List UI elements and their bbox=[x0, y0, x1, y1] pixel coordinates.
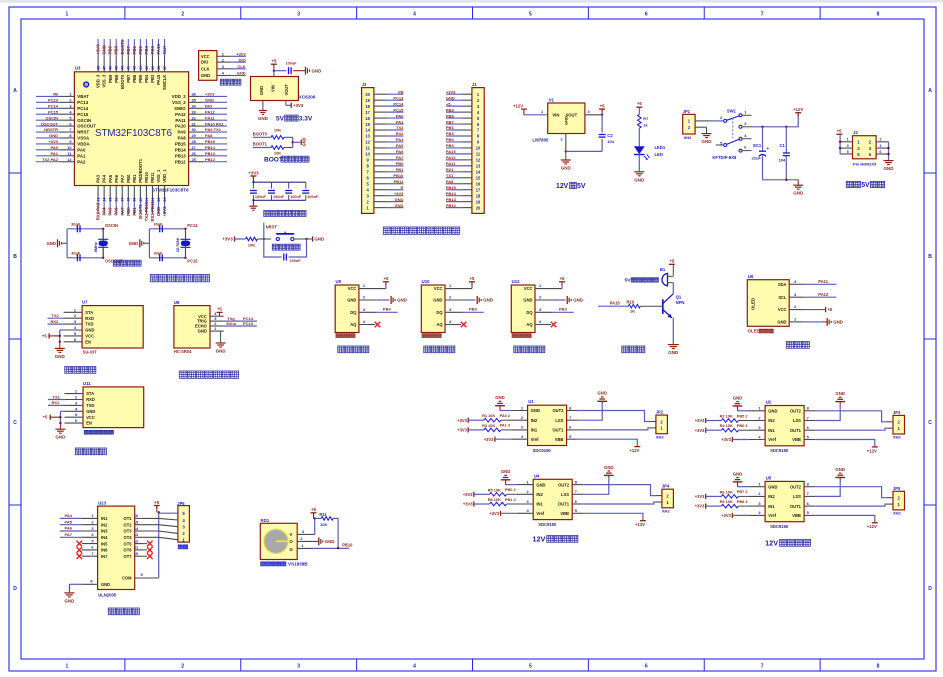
U13 GND pin 8 bbox=[64, 579, 110, 604]
svg-text:VDD_1: VDD_1 bbox=[162, 169, 167, 183]
svg-text:DIO: DIO bbox=[239, 57, 246, 62]
regulator GND pin to ground symbol bbox=[258, 101, 269, 122]
svg-text:STM32F103C8T6: STM32F103C8T6 bbox=[95, 128, 172, 139]
svg-text:PB14: PB14 bbox=[205, 145, 216, 150]
svg-text:TX1: TX1 bbox=[446, 173, 454, 178]
svg-text:20: 20 bbox=[139, 198, 143, 202]
svg-text:GND: GND bbox=[395, 197, 404, 202]
svg-text:OT1: OT1 bbox=[124, 516, 133, 521]
svg-text:PA5: PA5 bbox=[396, 143, 404, 148]
svg-text:PB3: PB3 bbox=[150, 46, 155, 55]
svg-text:+5: +5 bbox=[600, 104, 606, 109]
svg-text:PB0: PB0 bbox=[126, 174, 131, 183]
svg-text:IN4: IN4 bbox=[101, 535, 108, 540]
svg-text:PA0: PA0 bbox=[396, 113, 404, 118]
title 12V DC motor left bbox=[532, 535, 577, 544]
RD1 pin lines and numbers bbox=[297, 529, 317, 549]
svg-text:PB10: PB10 bbox=[144, 172, 149, 183]
svg-text:C: C bbox=[13, 420, 17, 426]
svg-text:GND: GND bbox=[55, 435, 66, 440]
svg-text:GND: GND bbox=[483, 298, 493, 303]
svg-text:10K: 10K bbox=[320, 522, 327, 527]
svg-text:U12: U12 bbox=[512, 279, 520, 284]
svg-text:VIN: VIN bbox=[270, 85, 275, 92]
RD1 O pin to GND sideways bbox=[317, 537, 335, 545]
svg-text:VB: VB bbox=[52, 92, 58, 97]
svg-text:12V: 12V bbox=[765, 539, 778, 548]
svg-text:GND: GND bbox=[573, 298, 583, 303]
module U8 ultrasonic HC-SR04 body bbox=[174, 300, 224, 354]
svg-text:GND: GND bbox=[347, 298, 356, 303]
svg-text:3: 3 bbox=[297, 664, 300, 670]
svg-text:DQ: DQ bbox=[526, 310, 533, 315]
svg-text:12V: 12V bbox=[556, 183, 569, 190]
svg-text:V: V bbox=[290, 532, 293, 537]
svg-text:15: 15 bbox=[365, 122, 370, 127]
svg-text:LSS: LSS bbox=[561, 492, 569, 497]
svg-text:GND: GND bbox=[156, 207, 161, 217]
svg-text:PB11: PB11 bbox=[394, 179, 405, 184]
svg-text:GND: GND bbox=[55, 354, 66, 359]
regulator XC6206 body bbox=[251, 77, 316, 101]
svg-text:1K: 1K bbox=[630, 308, 635, 313]
svg-text:48: 48 bbox=[97, 66, 101, 70]
svg-text:SCL: SCL bbox=[778, 295, 787, 300]
svg-text:+5: +5 bbox=[217, 306, 222, 311]
svg-text:BOOT0: BOOT0 bbox=[120, 74, 125, 89]
svg-text:OUT2: OUT2 bbox=[558, 482, 570, 487]
svg-text:GND: GND bbox=[536, 482, 545, 487]
RD1 G pin net PB10 bbox=[314, 543, 354, 550]
svg-text:10: 10 bbox=[67, 145, 71, 150]
svg-text:30pF: 30pF bbox=[71, 251, 81, 256]
svg-text:+5: +5 bbox=[828, 307, 833, 312]
svg-text:GND: GND bbox=[312, 68, 322, 73]
svg-text:EN: EN bbox=[85, 339, 91, 344]
svg-text:5: 5 bbox=[529, 12, 532, 18]
svg-text:12: 12 bbox=[365, 140, 370, 145]
svg-text:5: 5 bbox=[847, 150, 849, 154]
svg-text:JP3: JP3 bbox=[893, 410, 901, 415]
svg-text:Q1: Q1 bbox=[676, 294, 682, 299]
svg-text:PB10: PB10 bbox=[342, 543, 353, 548]
svg-text:OT5: OT5 bbox=[124, 541, 133, 546]
driver U5 SDC9150 with R6 R9 and JP5 bbox=[695, 467, 905, 529]
svg-text:PC13: PC13 bbox=[393, 95, 404, 100]
svg-text:TX1: TX1 bbox=[53, 394, 61, 399]
svg-text:Vref: Vref bbox=[531, 437, 539, 442]
svg-text:JP2: JP2 bbox=[656, 410, 664, 415]
svg-text:G: G bbox=[290, 547, 293, 552]
svg-text:VSSA: VSSA bbox=[77, 136, 90, 141]
ground for LED1 bbox=[634, 172, 645, 183]
svg-text:NRSTR: NRSTR bbox=[44, 127, 58, 132]
svg-text:RX1: RX1 bbox=[52, 400, 61, 405]
title IR tracking U10 bbox=[424, 346, 455, 353]
svg-text:PA11: PA11 bbox=[446, 161, 456, 166]
svg-text:VS1838B: VS1838B bbox=[288, 562, 308, 567]
svg-text:GND: GND bbox=[563, 116, 568, 125]
U6 net PA11 / PA12 / +5 / GND bbox=[804, 279, 843, 326]
svg-text:PC14: PC14 bbox=[77, 106, 88, 111]
power +5 for LED1 bbox=[636, 101, 642, 115]
svg-text:VIN: VIN bbox=[552, 112, 559, 117]
svg-text:30pF: 30pF bbox=[71, 222, 81, 227]
svg-text:J1: J1 bbox=[472, 82, 477, 87]
svg-text:PB1: PB1 bbox=[132, 174, 137, 183]
svg-text:U1: U1 bbox=[528, 399, 534, 404]
label IR receiver VS1838B bbox=[261, 562, 309, 567]
svg-text:SDC9150: SDC9150 bbox=[770, 524, 789, 529]
V1 GND pin2 to ground bbox=[561, 134, 603, 171]
svg-text:16: 16 bbox=[115, 198, 119, 202]
svg-text:+3V3: +3V3 bbox=[484, 437, 494, 442]
svg-text:R7: R7 bbox=[643, 116, 648, 121]
svg-text:OSCOUT: OSCOUT bbox=[77, 124, 96, 129]
svg-text:LM7805: LM7805 bbox=[532, 138, 549, 143]
svg-text:XH2: XH2 bbox=[893, 511, 902, 516]
RD1 V pin to +5 and resistor R11 10K bbox=[311, 507, 339, 548]
svg-text:16: 16 bbox=[365, 116, 370, 121]
svg-text:+3V3: +3V3 bbox=[457, 428, 467, 433]
svg-text:GND: GND bbox=[768, 484, 777, 489]
svg-text:13: 13 bbox=[476, 164, 481, 169]
svg-text:XH2: XH2 bbox=[662, 509, 671, 514]
svg-text:7: 7 bbox=[761, 664, 764, 670]
svg-text:VDD_3: VDD_3 bbox=[96, 74, 101, 88]
svg-text:PC13: PC13 bbox=[48, 98, 59, 103]
svg-text:XH2: XH2 bbox=[684, 135, 693, 140]
svg-text:SDC9150: SDC9150 bbox=[770, 448, 789, 453]
svg-text:PB13: PB13 bbox=[205, 151, 216, 156]
svg-text:5: 5 bbox=[529, 664, 532, 670]
svg-text:AQ: AQ bbox=[436, 322, 443, 327]
svg-text:STM32F103C8T6: STM32F103C8T6 bbox=[152, 188, 189, 193]
svg-text:TX2: TX2 bbox=[396, 125, 404, 130]
svg-text:+3V3: +3V3 bbox=[457, 418, 467, 423]
svg-text:7: 7 bbox=[575, 489, 577, 494]
svg-text:PB5: PB5 bbox=[138, 46, 143, 55]
svg-text:XC6206: XC6206 bbox=[299, 95, 316, 100]
svg-text:D: D bbox=[928, 586, 932, 592]
svg-text:RX2 PA3: RX2 PA3 bbox=[96, 202, 101, 220]
svg-text:GND: GND bbox=[201, 73, 210, 78]
label 5V active buzzer bbox=[625, 278, 659, 284]
svg-text:BOOT: BOOT bbox=[264, 157, 283, 164]
svg-text:11: 11 bbox=[366, 146, 371, 151]
svg-text:GND: GND bbox=[85, 328, 94, 333]
svg-text:PA0: PA0 bbox=[77, 147, 86, 152]
mcu U3 top pins 37-48 bbox=[96, 39, 168, 90]
svg-text:PB9: PB9 bbox=[469, 307, 478, 312]
svg-text:R3 10K: R3 10K bbox=[482, 423, 495, 428]
svg-text:PC15: PC15 bbox=[243, 321, 254, 326]
svg-text:VBAT: VBAT bbox=[77, 94, 89, 99]
svg-text:OUT1: OUT1 bbox=[790, 428, 802, 433]
svg-text:CLK: CLK bbox=[201, 66, 209, 71]
svg-text:10: 10 bbox=[476, 146, 481, 151]
svg-text:PB6: PB6 bbox=[132, 74, 137, 83]
svg-text:U2: U2 bbox=[766, 400, 772, 405]
svg-text:2: 2 bbox=[181, 664, 184, 670]
title 5V to 3.3V bbox=[276, 115, 313, 122]
svg-text:PA5: PA5 bbox=[108, 174, 113, 183]
svg-text:PB14: PB14 bbox=[446, 191, 457, 196]
svg-text:22uF: 22uF bbox=[752, 156, 762, 161]
module U11 bluetooth body and pins bbox=[65, 381, 144, 428]
svg-text:+5: +5 bbox=[559, 276, 565, 281]
title 12V to 5V bbox=[556, 182, 586, 190]
svg-text:RD1: RD1 bbox=[261, 518, 270, 523]
svg-text:IN1: IN1 bbox=[531, 428, 538, 433]
svg-text:OLED: OLED bbox=[751, 298, 756, 310]
svg-text:PA7: PA7 bbox=[396, 155, 404, 160]
svg-text:PB3: PB3 bbox=[446, 143, 455, 148]
title chip filter capacitors bbox=[264, 210, 306, 216]
svg-text:13: 13 bbox=[97, 198, 101, 202]
led LED1 bbox=[634, 145, 666, 171]
regulator VOUT to +3V3 bbox=[286, 101, 304, 108]
svg-text:17: 17 bbox=[365, 110, 370, 115]
svg-text:+3V3: +3V3 bbox=[489, 511, 499, 516]
module U6 OLED body bbox=[747, 274, 803, 333]
resistor R10 1K on base, net PA15 bbox=[598, 300, 663, 314]
connector J2 Pin HDR2X3 bbox=[840, 130, 888, 166]
svg-text:22: 22 bbox=[151, 198, 155, 202]
svg-text:LED: LED bbox=[655, 152, 663, 157]
connector JP6 motor bbox=[142, 501, 189, 543]
svg-text:VCC: VCC bbox=[434, 286, 443, 291]
svg-text:46: 46 bbox=[109, 66, 113, 70]
power +12V into V1 pin 1 bbox=[513, 104, 548, 115]
svg-text:10K: 10K bbox=[248, 243, 255, 248]
svg-text:PA7: PA7 bbox=[120, 174, 125, 183]
svg-text:6: 6 bbox=[879, 150, 881, 154]
module U10 IR tracking bbox=[421, 276, 493, 337]
svg-text:OUT2: OUT2 bbox=[790, 409, 802, 414]
switch SW1 KFTDIP-8X8 bbox=[716, 109, 752, 153]
svg-text:3: 3 bbox=[297, 12, 300, 18]
svg-text:OSCIN: OSCIN bbox=[45, 115, 58, 120]
svg-text:OT2: OT2 bbox=[124, 522, 133, 527]
svg-text:PA7: PA7 bbox=[65, 532, 73, 537]
svg-text:GND: GND bbox=[325, 539, 335, 544]
svg-text:+12V: +12V bbox=[629, 448, 639, 453]
svg-text:PB3: PB3 bbox=[150, 74, 155, 83]
U11 subtitle bluetooth comm module bbox=[84, 430, 113, 434]
svg-text:100nF: 100nF bbox=[307, 195, 319, 199]
svg-text:104: 104 bbox=[779, 158, 786, 163]
connector download port (VCC DIO CLK GND) bbox=[199, 51, 247, 81]
svg-text:U7: U7 bbox=[82, 300, 88, 305]
buzzer B1 bbox=[660, 267, 673, 294]
svg-text:GND: GND bbox=[597, 391, 607, 396]
power +5 and cap 100uF to GND above regulator bbox=[271, 59, 321, 77]
label KFTDIP-8X8 bbox=[712, 155, 737, 160]
svg-text:U5: U5 bbox=[766, 475, 772, 480]
svg-text:1: 1 bbox=[66, 12, 69, 18]
svg-text:JP5: JP5 bbox=[893, 486, 901, 491]
title voice module bbox=[65, 366, 96, 373]
svg-text:GND: GND bbox=[495, 395, 505, 400]
svg-text:GND: GND bbox=[101, 582, 110, 587]
svg-text:8MHz: 8MHz bbox=[93, 242, 98, 252]
U7 +5 power and ground bbox=[42, 330, 66, 359]
svg-text:17: 17 bbox=[121, 198, 125, 202]
svg-text:PA12: PA12 bbox=[205, 109, 215, 114]
svg-text:VBB: VBB bbox=[560, 511, 569, 516]
svg-text:PB4: PB4 bbox=[144, 46, 149, 55]
svg-text:PA10 RX1: PA10 RX1 bbox=[205, 121, 224, 126]
svg-text:PB12: PB12 bbox=[175, 159, 186, 164]
driver U1 SDC9150 with R1 R3 and JP2 bbox=[457, 391, 667, 453]
svg-text:19: 19 bbox=[365, 98, 370, 103]
U7 TX2/RX2 net stubs bbox=[48, 313, 64, 324]
crystal circuit 32.768K bbox=[129, 222, 199, 264]
svg-text:41: 41 bbox=[139, 66, 143, 70]
svg-text:+5: +5 bbox=[669, 258, 675, 263]
svg-text:R8 10K: R8 10K bbox=[488, 497, 501, 502]
svg-text:U11: U11 bbox=[83, 381, 91, 386]
svg-text:PB9: PB9 bbox=[108, 46, 113, 55]
svg-text:IN2: IN2 bbox=[531, 418, 538, 423]
svg-text:GND: GND bbox=[46, 241, 56, 246]
svg-text:EC1: EC1 bbox=[753, 143, 762, 148]
svg-text:13: 13 bbox=[365, 134, 370, 139]
svg-text:IN2: IN2 bbox=[536, 492, 543, 497]
svg-text:PA1 3: PA1 3 bbox=[500, 423, 511, 428]
U8 Trig/Echo nets bbox=[224, 316, 257, 326]
module U7 voice SU-03T body and pins bbox=[64, 300, 144, 355]
svg-text:JP1: JP1 bbox=[683, 109, 691, 114]
svg-text:VBB: VBB bbox=[792, 513, 801, 518]
svg-text:+3V3: +3V3 bbox=[248, 170, 259, 175]
svg-text:10K: 10K bbox=[274, 151, 281, 156]
svg-text:OT4: OT4 bbox=[124, 535, 133, 540]
svg-text:VBB: VBB bbox=[792, 437, 801, 442]
svg-text:PB7: PB7 bbox=[126, 46, 131, 55]
svg-text:SDC9150: SDC9150 bbox=[538, 522, 557, 527]
svg-text:+3V3: +3V3 bbox=[49, 139, 59, 144]
title minimum mcu system bbox=[150, 274, 209, 281]
svg-text:+3V3: +3V3 bbox=[446, 89, 456, 94]
svg-text:PA3: PA3 bbox=[96, 174, 101, 183]
svg-text:RX2: RX2 bbox=[396, 131, 405, 136]
svg-text:7: 7 bbox=[807, 491, 809, 496]
svg-text:PB5: PB5 bbox=[446, 131, 455, 136]
svg-text:+12V: +12V bbox=[793, 107, 803, 112]
svg-text:GND: GND bbox=[833, 320, 843, 325]
svg-text:GND: GND bbox=[523, 298, 532, 303]
svg-text:TX3 PB10: TX3 PB10 bbox=[144, 201, 149, 221]
svg-text:NPN: NPN bbox=[676, 300, 685, 305]
svg-text:VCC: VCC bbox=[778, 307, 787, 312]
svg-text:IN6: IN6 bbox=[101, 548, 108, 553]
svg-text:A: A bbox=[13, 88, 17, 94]
title ultrasonic ranging module bbox=[179, 371, 238, 378]
U8 +5 power bbox=[217, 306, 223, 316]
title IR tracking U9 bbox=[338, 346, 369, 353]
svg-text:16: 16 bbox=[476, 181, 481, 186]
svg-text:B: B bbox=[928, 254, 932, 260]
svg-text:100uF: 100uF bbox=[286, 62, 298, 66]
module U12 IR tracking bbox=[511, 276, 583, 337]
svg-text:11: 11 bbox=[476, 152, 481, 157]
svg-text:15: 15 bbox=[476, 175, 481, 180]
svg-text:CLK: CLK bbox=[162, 45, 167, 55]
svg-text:7: 7 bbox=[761, 12, 764, 18]
svg-text:PA15: PA15 bbox=[446, 149, 456, 154]
svg-text:SWCLK: SWCLK bbox=[162, 75, 167, 90]
svg-text:1: 1 bbox=[66, 664, 69, 670]
svg-text:+3V3: +3V3 bbox=[695, 504, 705, 509]
mcu U3 body bbox=[74, 65, 189, 192]
svg-text:+12V: +12V bbox=[867, 524, 877, 529]
svg-text:GND: GND bbox=[259, 86, 264, 95]
svg-text:2: 2 bbox=[181, 12, 184, 18]
svg-text:+3V3: +3V3 bbox=[205, 92, 215, 97]
svg-text:PA11: PA11 bbox=[205, 115, 215, 120]
svg-text:C: C bbox=[928, 420, 932, 426]
svg-text:PA8: PA8 bbox=[178, 136, 187, 141]
svg-text:BOOT1: BOOT1 bbox=[138, 203, 143, 218]
svg-text:PB9: PB9 bbox=[108, 74, 113, 83]
svg-text:PB5 2: PB5 2 bbox=[737, 413, 749, 418]
svg-text:21: 21 bbox=[145, 198, 149, 202]
svg-text:30pF: 30pF bbox=[153, 222, 163, 227]
capacitor C1 104 bbox=[779, 127, 790, 180]
svg-text:+3V3: +3V3 bbox=[463, 492, 473, 497]
svg-text:VBB: VBB bbox=[555, 437, 564, 442]
U8 ground bbox=[216, 331, 227, 353]
svg-text:STA: STA bbox=[86, 391, 94, 396]
svg-text:PB1 3: PB1 3 bbox=[505, 497, 517, 502]
JP1 pin2 to ground bbox=[695, 127, 712, 144]
J2 left +5 rail bbox=[836, 128, 842, 154]
svg-text:39: 39 bbox=[151, 66, 155, 70]
svg-text:U9: U9 bbox=[336, 279, 342, 284]
svg-text:PB7: PB7 bbox=[126, 74, 131, 83]
title crystal circuit bbox=[113, 260, 141, 266]
J2 right GND rail bbox=[884, 142, 895, 171]
svg-text:GND: GND bbox=[835, 391, 845, 396]
svg-text:VCC: VCC bbox=[201, 54, 210, 59]
svg-text:7: 7 bbox=[91, 551, 93, 556]
svg-text:B: B bbox=[13, 254, 17, 260]
svg-text:14: 14 bbox=[365, 128, 370, 133]
svg-text:PA1: PA1 bbox=[51, 151, 59, 156]
svg-text:30: 30 bbox=[192, 127, 196, 132]
svg-text:COM: COM bbox=[122, 576, 132, 581]
svg-text:IN1: IN1 bbox=[101, 516, 108, 521]
svg-text:VSS_2: VSS_2 bbox=[172, 100, 186, 105]
svg-text:PB1: PB1 bbox=[396, 167, 405, 172]
svg-text:GND: GND bbox=[314, 237, 324, 242]
svg-text:Pin HDR2X3: Pin HDR2X3 bbox=[853, 162, 877, 167]
svg-text:38: 38 bbox=[157, 66, 161, 70]
svg-text:GND: GND bbox=[49, 133, 58, 138]
svg-text:VDD_2: VDD_2 bbox=[172, 94, 187, 99]
svg-text:+3V3: +3V3 bbox=[721, 513, 731, 518]
svg-text:3: 3 bbox=[847, 144, 849, 148]
svg-text:C1: C1 bbox=[780, 143, 786, 148]
svg-text:PA12: PA12 bbox=[175, 112, 186, 117]
svg-text:PC15: PC15 bbox=[77, 112, 88, 117]
module U13 ULN2003 body bbox=[82, 501, 142, 590]
chip filter capacitors 100uF + 3x100nF between +3V3 and GND bbox=[248, 170, 319, 210]
svg-text:PB9: PB9 bbox=[446, 107, 455, 112]
svg-text:OSCIN: OSCIN bbox=[77, 118, 91, 123]
